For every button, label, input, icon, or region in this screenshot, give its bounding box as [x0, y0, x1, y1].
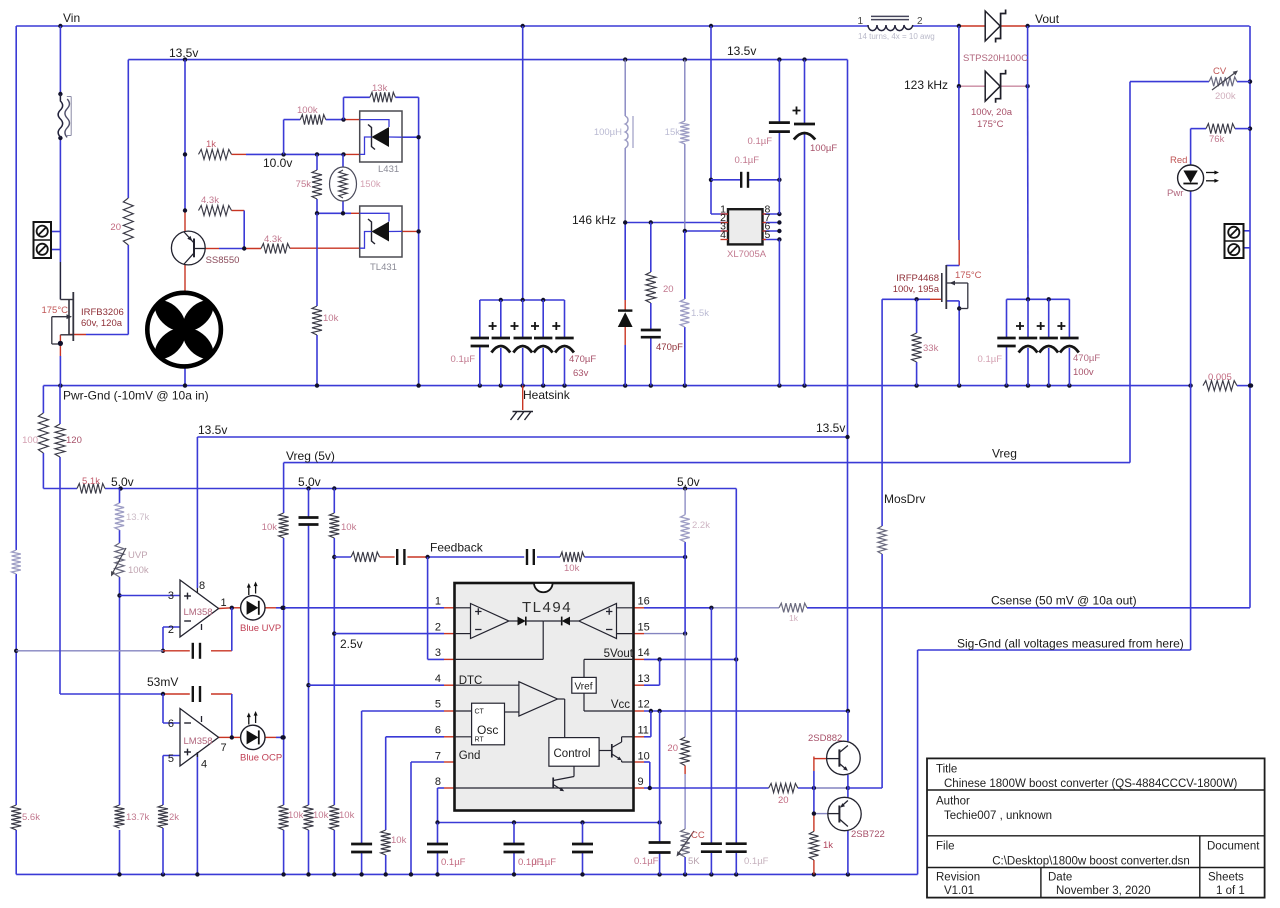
svg-text:175°C: 175°C — [977, 119, 1004, 130]
resistor mosdrv gate — [878, 526, 886, 554]
svg-text:4: 4 — [201, 759, 207, 771]
wire pin13 strap — [634, 659, 660, 685]
resistor 5.1k — [77, 476, 105, 494]
capacitor 0.1uF pin8 a — [427, 844, 466, 868]
wire feedback to pin3 — [427, 557, 429, 659]
wire 10k divider to ground — [316, 213, 318, 385]
svg-text:0.1µF: 0.1µF — [744, 856, 769, 867]
wire pin7 Gnd — [411, 762, 455, 874]
wire op-amp V+ supply — [196, 437, 198, 588]
wire 53mV sense row — [60, 489, 232, 738]
svg-text:IRFP4468: IRFP4468 — [896, 273, 939, 284]
wire 120ohm branch — [59, 386, 61, 489]
resistor feedback series — [351, 552, 380, 562]
resistor 1k csense — [779, 603, 807, 623]
svg-text:Vcc: Vcc — [611, 699, 630, 711]
wire Vreg rail — [284, 462, 1130, 464]
resistor 76k — [1206, 124, 1235, 145]
svg-text:Vout: Vout — [1035, 12, 1060, 26]
resistor 10k 2.5v upper — [329, 513, 356, 538]
resistor 13.7k lower — [115, 805, 150, 828]
svg-text:100µF: 100µF — [810, 143, 837, 154]
svg-text:10k: 10k — [323, 313, 339, 324]
svg-text:120: 120 — [66, 435, 82, 446]
svg-text:5.6k: 5.6k — [22, 812, 40, 823]
ic U4 XL7005A — [720, 204, 770, 261]
svg-text:0.1µF: 0.1µF — [441, 857, 466, 868]
resistor 5.6k — [11, 805, 40, 830]
svg-text:Author: Author — [936, 796, 970, 808]
wire Pwr-Gnd bus — [43, 383, 1253, 387]
svg-text:10k: 10k — [564, 563, 580, 574]
resistor 10k bias — [312, 306, 339, 335]
wire 13.5v down right to Vcc rail — [847, 60, 849, 711]
transistor Q4 2SB722 — [828, 797, 885, 840]
svg-text:10.0v: 10.0v — [263, 156, 292, 170]
svg-text:0.1µF: 0.1µF — [451, 354, 476, 365]
svg-text:LM358: LM358 — [184, 607, 213, 618]
wire snubber branch — [650, 223, 652, 386]
svg-text:11: 11 — [638, 725, 649, 737]
svg-text:November 3, 2020: November 3, 2020 — [1056, 885, 1151, 897]
svg-text:150k: 150k — [360, 179, 381, 190]
svg-text:10k: 10k — [341, 522, 357, 533]
wire MosDrv net — [848, 299, 882, 788]
svg-text:Sig-Gnd (all voltages measured: Sig-Gnd (all voltages measured from here… — [957, 637, 1184, 651]
potentiometer CV 200k — [1209, 66, 1238, 102]
wire Sig-Gnd bottom bus — [16, 872, 917, 876]
svg-text:0.1µF: 0.1µF — [748, 136, 773, 147]
svg-text:Blue UVP: Blue UVP — [240, 623, 281, 634]
wire XL7005A output vertical — [778, 60, 780, 386]
svg-text:470µF: 470µF — [1073, 353, 1100, 364]
svg-text:146 kHz: 146 kHz — [572, 213, 616, 227]
resistor 1.5k — [680, 299, 709, 327]
wire 4.3k to SS8550 base — [205, 211, 261, 251]
svg-text:2: 2 — [168, 624, 174, 636]
capacitor CT — [351, 844, 372, 852]
wire op-amp1 + input — [120, 595, 181, 597]
capacitor 0.1uF pin8 c — [532, 844, 593, 868]
svg-text:Pwr: Pwr — [1167, 188, 1183, 199]
tl494 diode A — [518, 617, 544, 626]
wire pin10 strap — [634, 762, 650, 788]
tl494 comparator A — [455, 604, 518, 639]
resistor 4.3k ref — [261, 234, 290, 254]
resistor 13k — [370, 83, 396, 102]
capacitor 470pF — [641, 330, 683, 353]
svg-text:8: 8 — [435, 776, 441, 788]
fan M1 — [147, 293, 221, 367]
svg-text:Csense (50 mV @ 10a out): Csense (50 mV @ 10a out) — [991, 594, 1137, 608]
svg-text:10k: 10k — [391, 835, 407, 846]
wire XL7005A right pins to output cap — [763, 212, 782, 242]
wire op-amp2 out to Blue OCP — [219, 735, 285, 739]
svg-text:TL494: TL494 — [522, 599, 572, 616]
wire pin8 to cap bus — [438, 788, 455, 823]
led Blue UVP — [240, 582, 281, 635]
capacitor bank 470uF 63v x4 — [489, 322, 597, 379]
wire 13.5v rail — [128, 57, 847, 61]
svg-text:Red: Red — [1170, 155, 1187, 166]
svg-text:470µF: 470µF — [569, 354, 596, 365]
svg-text:Heatsink: Heatsink — [523, 388, 571, 402]
svg-text:75k: 75k — [296, 179, 312, 190]
tl494 pin numbers right — [638, 596, 650, 789]
resistor 1k — [199, 139, 232, 159]
mosfet Q5 IRFP4468 — [893, 265, 982, 309]
wire 100ohm branch — [42, 386, 44, 489]
capacitor op-amp2 input — [193, 686, 200, 702]
svg-text:2: 2 — [435, 621, 441, 633]
svg-text:100k: 100k — [128, 565, 149, 576]
svg-text:1k: 1k — [823, 840, 833, 851]
svg-text:LM358: LM358 — [184, 736, 213, 747]
terminal block J1 input — [34, 222, 52, 258]
resistor 10k dtc lower — [304, 805, 329, 830]
svg-text:4: 4 — [435, 673, 441, 685]
resistor 13.7k upper — [115, 503, 150, 530]
svg-text:14: 14 — [638, 647, 650, 659]
wire 13.5v to gate resistor — [69, 60, 128, 335]
svg-text:10: 10 — [638, 750, 650, 762]
wire DTC branch — [306, 489, 310, 875]
svg-text:2.5v: 2.5v — [340, 637, 363, 651]
wire pin4 DTC — [309, 684, 455, 686]
svg-text:Chinese 1800W boost converter: Chinese 1800W boost converter (QS-4884CC… — [944, 778, 1238, 790]
svg-text:15: 15 — [638, 621, 650, 633]
svg-text:76k: 76k — [1209, 134, 1225, 145]
wire pin16 Csense row — [634, 606, 1251, 610]
op-amp U1A LM358 — [168, 580, 227, 637]
resistor 10k 2.5v lower — [329, 805, 354, 830]
resistor 33k — [912, 333, 939, 362]
op-amp U1B LM358 — [168, 709, 227, 771]
svg-text:100: 100 — [22, 435, 38, 446]
svg-text:Sheets: Sheets — [1208, 872, 1244, 884]
svg-text:Pwr-Gnd (-10mV @ 10a in): Pwr-Gnd (-10mV @ 10a in) — [63, 389, 209, 403]
svg-text:470pF: 470pF — [656, 342, 683, 353]
svg-text:Vin: Vin — [63, 11, 80, 25]
capacitor op-amp1 feedback — [193, 643, 200, 659]
svg-text:13.5v: 13.5v — [727, 44, 756, 58]
wire decoupling cap bus — [435, 820, 662, 824]
wire IRFP4468 drain — [946, 86, 959, 265]
svg-text:5: 5 — [168, 753, 174, 765]
wire 2.5v divider branch — [332, 489, 336, 875]
svg-text:100k: 100k — [297, 105, 318, 116]
svg-text:MosDrv: MosDrv — [884, 492, 925, 506]
svg-text:16: 16 — [638, 596, 650, 608]
svg-text:XL7005A: XL7005A — [727, 249, 767, 260]
svg-text:UVP: UVP — [128, 550, 148, 561]
wire L431/TL431 cathode vertical — [402, 97, 421, 385]
svg-text:CC: CC — [691, 830, 705, 841]
resistor 10k RT — [381, 830, 407, 855]
svg-text:Title: Title — [936, 764, 957, 776]
svg-text:Techie007 , unknown: Techie007 , unknown — [944, 810, 1052, 822]
svg-text:4.3k: 4.3k — [201, 195, 219, 206]
wire driver transistor emitters — [847, 711, 849, 874]
diode D3 freewheel — [618, 311, 633, 327]
capacitor 0.1uF pin8 b — [504, 844, 543, 868]
svg-text:Gnd: Gnd — [459, 750, 481, 762]
wire MOSFET source to Pwr-Gnd — [58, 335, 63, 386]
svg-text:10k: 10k — [313, 810, 329, 821]
wire op-amp2 inverting input bracket — [163, 694, 180, 723]
wire pin14 5Vout row — [634, 657, 739, 661]
svg-text:1.5k: 1.5k — [691, 308, 709, 319]
svg-text:14 turns, 4x = 10 awg: 14 turns, 4x = 10 awg — [858, 32, 935, 41]
svg-text:CV: CV — [1213, 66, 1227, 77]
wire pin12 Vcc row — [634, 709, 851, 713]
svg-text:10k: 10k — [339, 810, 355, 821]
resistor 2k — [158, 805, 179, 828]
resistor 0.005 shunt — [1203, 372, 1237, 391]
svg-text:1k: 1k — [206, 139, 216, 150]
transistor Q3 2SD882 — [808, 733, 860, 775]
svg-text:3: 3 — [435, 647, 441, 659]
svg-text:60v, 120a: 60v, 120a — [81, 318, 123, 329]
resistor 20 gate pull-up — [110, 198, 133, 245]
wire op-amp V- to ground — [196, 752, 198, 874]
svg-text:Vref: Vref — [575, 682, 593, 693]
wire pin3 stub — [428, 658, 455, 660]
wire Vin left edge vertical — [14, 26, 18, 874]
resistor 100 sense — [22, 413, 48, 453]
svg-text:20: 20 — [778, 795, 789, 806]
svg-text:Document: Document — [1207, 841, 1260, 853]
terminal block J2 output — [1225, 224, 1244, 258]
svg-text:0.1µF: 0.1µF — [532, 857, 557, 868]
resistor 20 driver — [769, 783, 798, 806]
svg-text:13.7k: 13.7k — [126, 812, 149, 823]
wire UVP divider vertical — [117, 489, 121, 875]
wire IRFP gate row — [882, 297, 942, 301]
tl494 output transistor lower — [455, 766, 634, 791]
tl494 output transistor upper — [599, 737, 633, 762]
svg-text:2.2k: 2.2k — [692, 520, 710, 531]
capacitor 470uF 100v x3 — [1016, 322, 1100, 378]
svg-text:2: 2 — [917, 16, 923, 27]
svg-text:1: 1 — [857, 16, 863, 27]
svg-text:1: 1 — [221, 597, 227, 609]
tl494 diode B — [543, 617, 570, 626]
svg-text:Blue OCP: Blue OCP — [240, 753, 282, 764]
wire SS8550 bias vertical — [183, 60, 187, 232]
wire input terminal stubs — [51, 232, 60, 250]
svg-text:175°C: 175°C — [955, 270, 982, 281]
resistor 120 sense — [55, 424, 82, 457]
svg-text:L431: L431 — [378, 164, 399, 175]
resistor 10k pullup lower — [279, 805, 304, 830]
svg-text:20: 20 — [110, 222, 121, 233]
ic U5 TL494 body — [455, 583, 634, 811]
svg-text:File: File — [936, 841, 955, 853]
svg-text:Vreg: Vreg — [992, 447, 1017, 461]
resistor 10k feedback — [560, 552, 584, 574]
capacitor feedback 2 — [527, 549, 534, 565]
resistor 20 pin15 — [667, 737, 689, 766]
wire Vin to fuse and MOSFET drain — [58, 26, 62, 300]
resistor 2.2k feedback — [681, 515, 711, 542]
svg-text:6: 6 — [435, 725, 441, 737]
wire comparator out to pin1 / Blue UVP — [219, 606, 455, 610]
svg-text:Revision: Revision — [936, 872, 980, 884]
wire 100k row to L431 ref — [284, 117, 360, 154]
wire Csense filter branch — [710, 608, 712, 875]
ground heatsink — [511, 412, 534, 421]
svg-text:4: 4 — [720, 229, 726, 241]
svg-text:63v: 63v — [573, 368, 589, 379]
svg-text:CT: CT — [475, 709, 485, 716]
svg-text:5.0v: 5.0v — [111, 475, 134, 489]
svg-text:3: 3 — [168, 590, 174, 602]
svg-text:4.3k: 4.3k — [264, 234, 282, 245]
potentiometer CC 5K — [677, 829, 705, 867]
svg-text:STPS20H100C: STPS20H100C — [963, 53, 1028, 64]
wire Vreg right vertical to CV pot — [1130, 82, 1250, 463]
svg-text:C:\Desktop\1800w boost convert: C:\Desktop\1800w boost converter.dsn — [992, 856, 1190, 868]
svg-text:Date: Date — [1048, 872, 1072, 884]
tl494 vref block — [572, 659, 634, 711]
led Red Pwr — [1167, 155, 1219, 199]
resistor 1k driver bleed — [809, 831, 833, 860]
capacitor 0.1uF vcc — [634, 843, 671, 868]
tl494 pin numbers left — [435, 596, 441, 789]
svg-text:8: 8 — [199, 580, 205, 592]
svg-text:0.1µF: 0.1µF — [634, 856, 659, 867]
svg-text:12: 12 — [638, 699, 650, 711]
wire 0.1uF bypass row — [711, 178, 782, 182]
fuse F1 parallel pair — [58, 94, 71, 138]
svg-text:Control: Control — [554, 748, 591, 760]
wire feedback network row — [334, 555, 687, 559]
svg-text:5: 5 — [435, 699, 441, 711]
shunt regulator U2 L431 — [360, 111, 402, 175]
wire 13.5v second rail — [197, 435, 849, 439]
wire 15k branch to pin3 — [683, 60, 728, 386]
wire driver base branch — [812, 757, 828, 875]
svg-text:5.0v: 5.0v — [298, 475, 321, 489]
wire second schottky row — [957, 26, 1030, 88]
svg-text:175°C: 175°C — [41, 305, 68, 316]
capacitor 100uF 13.5v — [793, 107, 838, 155]
tl494 osc block — [455, 703, 519, 745]
resistor 10k vreg pullup — [262, 513, 289, 538]
wire TL431 ref row — [290, 247, 360, 249]
resistor input divider upper (faint) — [12, 550, 21, 574]
svg-text:5K: 5K — [688, 856, 700, 867]
svg-text:100v, 20a: 100v, 20a — [971, 107, 1013, 118]
wire Vout filter bank top bus — [1007, 297, 1070, 386]
capacitor 0.1uF c10 — [726, 844, 769, 867]
svg-text:TL431: TL431 — [370, 262, 397, 273]
wire IRFP source to shunt — [946, 301, 961, 386]
transistor Q2 SS8550 — [171, 231, 239, 266]
svg-text:2SB722: 2SB722 — [851, 829, 885, 840]
wire filter cap bank top bus — [480, 298, 565, 386]
wire 100uF branch — [804, 60, 806, 386]
svg-text:20: 20 — [663, 284, 674, 295]
resistor 20 snubber — [646, 272, 674, 303]
svg-text:9: 9 — [638, 776, 644, 788]
diode D1 STPS20H100C upper — [985, 10, 1005, 43]
svg-text:123 kHz: 123 kHz — [904, 78, 948, 92]
tl494 control block — [549, 738, 599, 767]
resistor 75k — [296, 170, 322, 199]
wire fan leads — [184, 264, 186, 386]
svg-text:20: 20 — [667, 743, 678, 754]
potentiometer UVP 100k — [111, 543, 149, 577]
capacitor 0.1uF 13.5v — [748, 123, 790, 147]
svg-text:100µH: 100µH — [594, 127, 622, 138]
svg-text:13: 13 — [638, 673, 650, 685]
svg-text:100v, 195a: 100v, 195a — [893, 284, 940, 295]
wire pin2 from 2.5v — [334, 633, 454, 635]
wire 146kHz row to XL7005A pin2 — [623, 220, 728, 224]
wire pin11 strap — [634, 711, 651, 737]
mosfet Q1 IRFB3206 — [41, 292, 123, 344]
svg-text:10k: 10k — [262, 522, 278, 533]
svg-text:IRFB3206: IRFB3206 — [81, 307, 124, 318]
capacitor 0.1uF vout — [978, 338, 1016, 365]
wire Vout cap bank feed — [1027, 26, 1029, 299]
wire 33k branch — [916, 299, 918, 385]
wire 75k 150k row — [315, 154, 360, 215]
svg-text:V1.01: V1.01 — [944, 885, 974, 897]
wire pin5 CT — [362, 711, 455, 874]
svg-text:5: 5 — [765, 229, 771, 241]
thermistor 150k — [330, 167, 381, 201]
wire cap drops to ground bus — [438, 823, 583, 875]
wire heatsink ground stub — [522, 386, 524, 410]
wire pin9 drive row — [634, 786, 851, 790]
svg-text:2SD882: 2SD882 — [808, 733, 842, 744]
svg-text:0.1µF: 0.1µF — [735, 155, 760, 166]
svg-text:1: 1 — [435, 596, 441, 608]
svg-text:Feedback: Feedback — [430, 541, 484, 555]
diode D2 STPS20H100C lower — [963, 53, 1028, 130]
wire 5.0v feed to pin14 branch — [735, 489, 737, 875]
capacitor dtc 0.1uF — [299, 518, 319, 525]
wire Vin top rail — [16, 24, 1249, 28]
wire op-amp1 inverting input bracket — [161, 627, 180, 653]
svg-text:DTC: DTC — [459, 675, 483, 687]
wire Sig-Gnd branch — [918, 650, 1191, 874]
svg-text:SS8550: SS8550 — [206, 255, 240, 266]
tl494 dtc comparator — [455, 682, 565, 738]
svg-text:0.005: 0.005 — [1208, 372, 1232, 383]
title block — [927, 758, 1265, 897]
svg-text:7: 7 — [435, 750, 441, 762]
wire op-amp1 feedback row — [16, 608, 232, 651]
wire feedback 2.2k branch vertical — [684, 489, 686, 875]
tl494 labels — [459, 648, 634, 762]
svg-text:200k: 200k — [1215, 91, 1236, 102]
wire op-amp2 + input to 2k — [163, 756, 180, 875]
inductor 100uH — [594, 116, 633, 148]
svg-text:0.1µF: 0.1µF — [978, 354, 1003, 365]
capacitor bank 0.1uF heatsink — [451, 338, 489, 365]
svg-text:13.5v: 13.5v — [816, 421, 845, 435]
wire Red LED cathode to shunt and Sig-Gnd — [1190, 191, 1192, 650]
resistor 100k — [297, 105, 326, 125]
wire XL7005A pin1 from Vin — [709, 26, 728, 214]
wire 100uH branch — [624, 60, 626, 386]
wire boost rail to filter caps — [522, 26, 524, 300]
svg-text:2k: 2k — [169, 812, 179, 823]
